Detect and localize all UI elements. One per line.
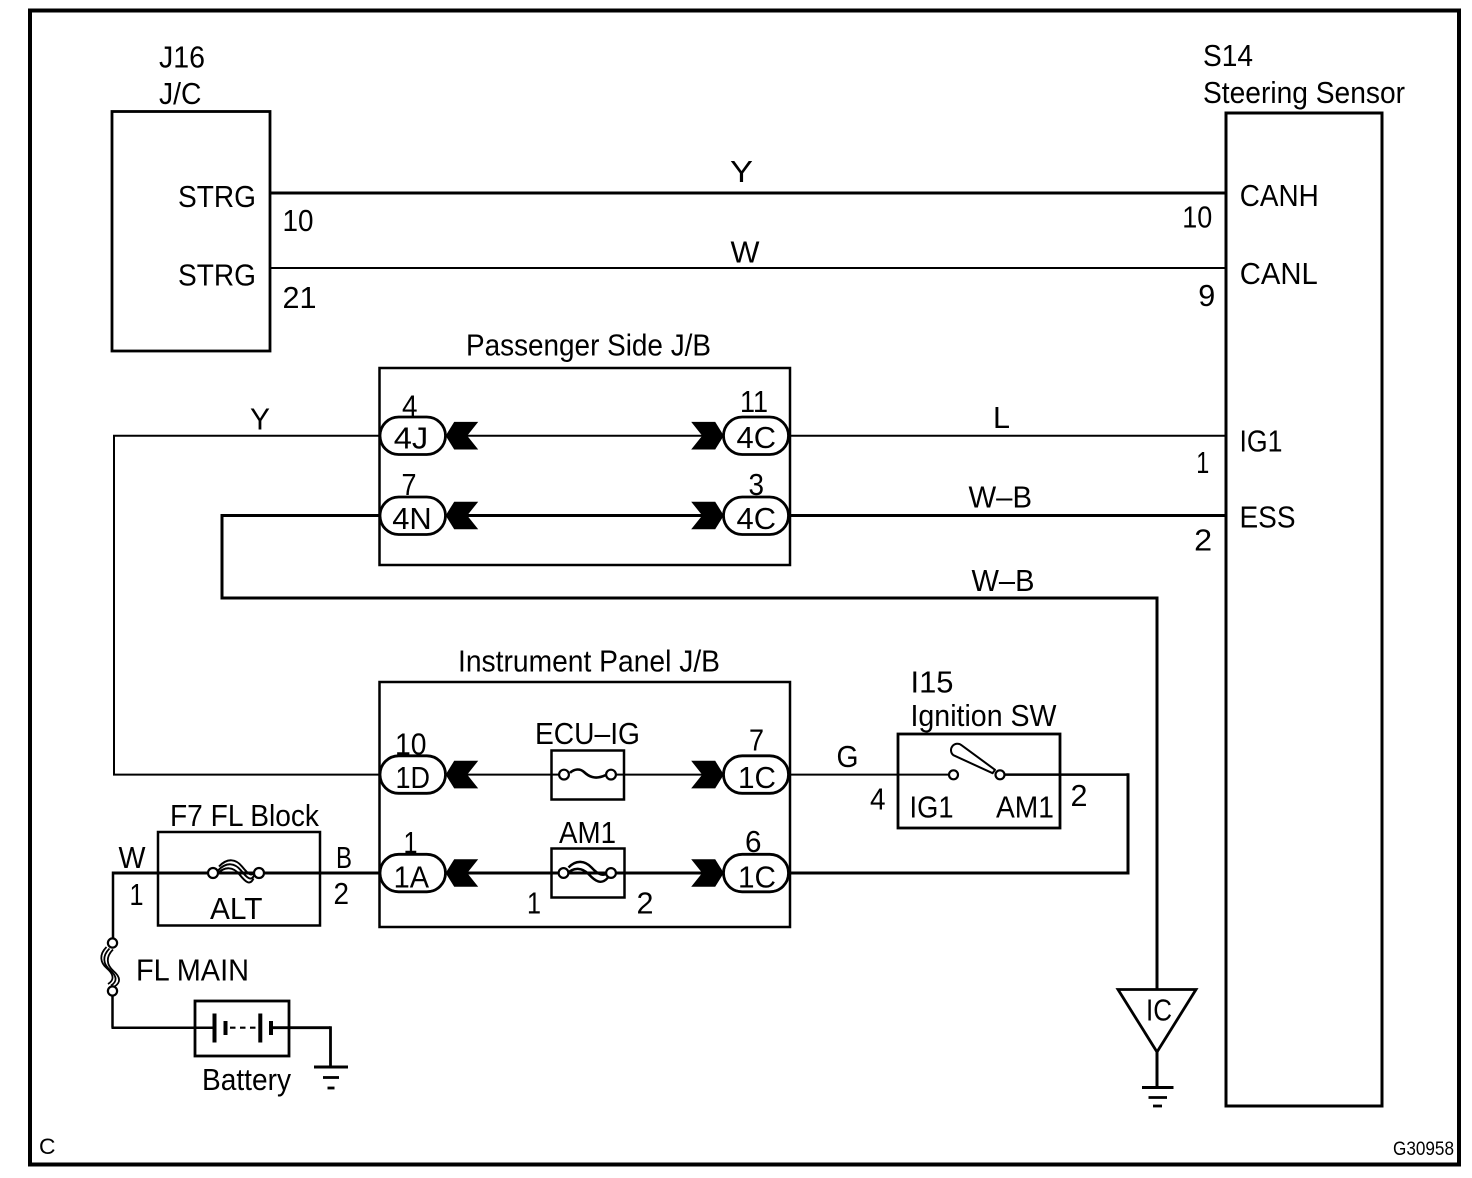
svg-text:1D: 1D [396, 760, 431, 795]
svg-text:4J: 4J [394, 420, 429, 455]
svg-text:4C: 4C [737, 501, 777, 536]
svg-text:2: 2 [1194, 524, 1212, 558]
svg-text:1A: 1A [394, 860, 430, 895]
svg-text:S14: S14 [1203, 38, 1253, 73]
svg-text:AM1: AM1 [559, 815, 616, 850]
svg-text:AM1: AM1 [996, 789, 1054, 824]
svg-text:11: 11 [740, 385, 768, 419]
svg-text:W–B: W–B [969, 480, 1033, 515]
svg-text:C: C [39, 1134, 56, 1159]
svg-text:2: 2 [1071, 779, 1088, 813]
svg-text:4: 4 [402, 390, 418, 424]
svg-text:3: 3 [749, 468, 765, 502]
svg-text:4N: 4N [392, 501, 432, 536]
svg-text:10: 10 [1182, 201, 1212, 235]
svg-text:7: 7 [749, 723, 764, 757]
svg-text:J/C: J/C [159, 76, 202, 111]
svg-text:F7 FL Block: F7 FL Block [170, 798, 319, 833]
svg-text:B: B [336, 840, 352, 875]
svg-text:Passenger Side J/B: Passenger Side J/B [466, 328, 711, 363]
svg-text:J16: J16 [159, 40, 205, 75]
svg-text:2: 2 [637, 887, 654, 921]
svg-text:2: 2 [334, 877, 350, 911]
svg-text:W: W [119, 840, 147, 875]
svg-text:L: L [993, 400, 1010, 435]
svg-text:10: 10 [395, 728, 427, 762]
svg-text:STRG: STRG [178, 179, 256, 214]
svg-text:1C: 1C [738, 760, 776, 795]
svg-text:G: G [837, 739, 859, 774]
svg-text:CANL: CANL [1240, 256, 1318, 291]
svg-text:1: 1 [1196, 446, 1209, 480]
svg-text:W–B: W–B [972, 563, 1035, 598]
svg-text:IG1: IG1 [910, 789, 954, 824]
svg-text:ECU–IG: ECU–IG [535, 716, 640, 751]
svg-text:Y: Y [250, 402, 270, 437]
svg-text:Instrument Panel J/B: Instrument Panel J/B [458, 644, 720, 679]
svg-text:1: 1 [404, 826, 418, 860]
svg-text:1: 1 [527, 887, 541, 921]
svg-text:IG1: IG1 [1240, 424, 1283, 459]
svg-text:21: 21 [283, 281, 317, 315]
svg-text:4C: 4C [737, 420, 777, 455]
svg-text:1: 1 [130, 878, 144, 912]
svg-text:ALT: ALT [210, 891, 263, 926]
svg-text:ESS: ESS [1240, 500, 1296, 535]
svg-text:Battery: Battery [202, 1062, 291, 1097]
svg-text:I15: I15 [911, 664, 954, 699]
svg-text:9: 9 [1198, 279, 1215, 313]
svg-text:7: 7 [402, 468, 417, 502]
svg-text:CANH: CANH [1240, 178, 1319, 213]
svg-text:Ignition SW: Ignition SW [911, 698, 1058, 733]
svg-text:FL MAIN: FL MAIN [136, 952, 249, 987]
svg-text:4: 4 [870, 783, 886, 817]
svg-text:G30958: G30958 [1393, 1139, 1454, 1160]
svg-text:W: W [731, 235, 761, 270]
svg-text:1C: 1C [738, 860, 776, 895]
svg-text:Steering Sensor: Steering Sensor [1203, 75, 1405, 110]
svg-text:6: 6 [745, 825, 762, 859]
svg-text:STRG: STRG [178, 257, 256, 292]
svg-text:Y: Y [730, 154, 753, 189]
svg-text:IC: IC [1146, 993, 1172, 1028]
svg-text:10: 10 [283, 204, 314, 238]
